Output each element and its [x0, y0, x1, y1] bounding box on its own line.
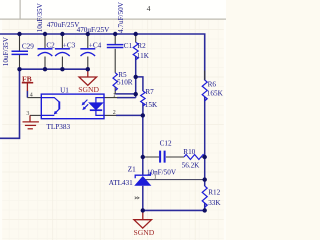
op-amp U1 optocoupler box: [41, 94, 104, 119]
wire Z1 anode down: [142, 186, 144, 211]
wire C12 node down to Z1 cathode: [142, 157, 144, 175]
wire pin 1 to node: [117, 97, 136, 99]
LED emission arrows: [82, 100, 88, 110]
wire FB to pin 4: [26, 91, 28, 98]
wire top rail with right drop: [0, 34, 205, 80]
node R2 bottom: [134, 75, 138, 79]
resistor R2: [133, 42, 138, 59]
svg-text:R2: R2: [137, 42, 146, 50]
node bottom rail junctions: [17, 67, 21, 71]
node top rail junctions: [17, 32, 21, 36]
wire pin 2 to junction: [116, 114, 143, 116]
svg-text:TLP383: TLP383: [47, 123, 71, 131]
capacitor C4: [80, 49, 95, 56]
pin R2 top lead: [135, 34, 137, 42]
svg-text:R12: R12: [208, 189, 220, 197]
node pin2 junction: [141, 113, 145, 117]
pin R10 right lead: [201, 156, 205, 158]
wire bottom ground run: [143, 209, 205, 211]
sheet border line: [0, 19, 226, 20]
wire bottom cap rail: [20, 68, 88, 70]
svg-text:+C4: +C4: [89, 41, 102, 49]
svg-text:15K: 15K: [145, 101, 158, 109]
wire node to R7 top: [136, 77, 143, 91]
pin U1 pin4: [27, 97, 41, 99]
svg-text:FB: FB: [22, 74, 32, 83]
svg-text:3: 3: [26, 111, 29, 117]
svg-text:2: 2: [113, 110, 116, 116]
pin C4 leads: [87, 34, 89, 69]
pin U1 pin3: [30, 114, 41, 116]
Z1 anode chevron mark: [135, 197, 139, 199]
svg-text:4: 4: [30, 92, 33, 98]
wire R12 bottom: [204, 203, 206, 210]
sheet right margin: [224, 18, 226, 240]
svg-text:C29: C29: [22, 42, 34, 50]
ground earth at U1 pin3: [23, 115, 39, 128]
svg-text:R6: R6: [208, 81, 217, 89]
svg-text:Z1: Z1: [128, 165, 136, 173]
svg-text:ATL431: ATL431: [109, 179, 133, 187]
node bottom right corner: [203, 208, 207, 212]
pin C12 leads: [143, 156, 184, 158]
capacitor C3: [55, 49, 70, 56]
svg-text:470uF/25V: 470uF/25V: [47, 21, 81, 29]
wire R7 bottom: [142, 103, 144, 115]
wire node vertical R2 bottom: [135, 56, 137, 97]
capacitor C12: [160, 151, 165, 163]
transistor Q inside U1: [41, 98, 59, 116]
pin C2 leads: [44, 34, 46, 69]
svg-text:SGND: SGND: [134, 228, 155, 237]
svg-text:U1: U1: [60, 86, 69, 94]
transistor Z1 ATL431: [135, 172, 151, 185]
pin R6 top lead: [204, 71, 206, 81]
wire R5 bottom to node: [115, 93, 136, 95]
svg-text:R7: R7: [145, 88, 154, 96]
ground SGND top: [78, 69, 99, 94]
sheet border tick: [20, 0, 21, 19]
svg-text:R10: R10: [183, 148, 195, 156]
power port FB: [22, 74, 33, 91]
capacitor C29: [12, 51, 29, 54]
resistor R12: [202, 186, 207, 207]
pin C3 leads: [61, 34, 63, 69]
svg-text:4.7uF/50V: 4.7uF/50V: [117, 1, 125, 33]
svg-text:C12: C12: [160, 140, 172, 148]
pin C29 leads: [19, 34, 21, 69]
svg-text:470uF/25V: 470uF/25V: [77, 26, 111, 34]
svg-text:11K: 11K: [137, 52, 150, 60]
pin U1 pin2: [104, 114, 116, 116]
sheet top margin band: [0, 0, 226, 19]
node R10 right: [203, 155, 207, 159]
svg-text:165K: 165K: [207, 90, 224, 98]
node ref junction: [203, 177, 207, 181]
node C12 left: [141, 155, 145, 159]
svg-text:10uF/35V: 10uF/35V: [2, 36, 10, 66]
LED inside U1: [89, 98, 104, 116]
svg-text:C1: C1: [124, 42, 133, 50]
node R5 wire: [134, 92, 138, 96]
capacitor C2: [38, 49, 53, 56]
svg-text:33K: 33K: [208, 199, 221, 207]
wire right column R6 to R12: [204, 97, 206, 186]
sheet left margin: [0, 18, 2, 240]
pin C1 leads and R5 leads: [114, 34, 116, 94]
wire left drop exiting sheet: [0, 69, 20, 138]
ground SGND bottom: [134, 210, 155, 237]
sheet background: [0, 0, 226, 240]
svg-text:56.2K: 56.2K: [182, 162, 201, 170]
svg-text:C2: C2: [46, 41, 55, 49]
resistor R5: [113, 73, 117, 91]
resistor R10: [184, 155, 205, 160]
svg-text:10uF/35V: 10uF/35V: [36, 2, 44, 32]
resistor R6: [202, 80, 207, 101]
svg-text:510R: 510R: [117, 79, 133, 87]
svg-text:10nF/50V: 10nF/50V: [147, 168, 177, 176]
svg-text:SGND: SGND: [78, 85, 99, 94]
node SGND bottom junction: [141, 208, 145, 212]
capacitor C1: [107, 45, 124, 48]
wire junction down to C12 node: [142, 115, 144, 157]
pin Z1 reference line: [145, 179, 205, 181]
svg-text:4: 4: [147, 4, 151, 13]
svg-text:+C3: +C3: [63, 41, 76, 49]
resistor R7: [141, 91, 145, 106]
pin U1 pin1: [104, 97, 117, 99]
svg-text:1: 1: [113, 93, 116, 99]
